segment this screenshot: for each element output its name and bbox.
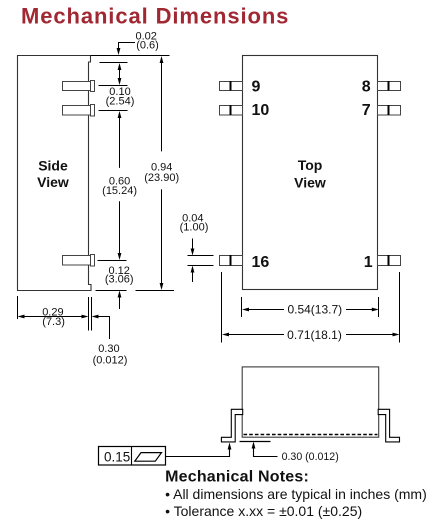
svg-text:0.54(13.7): 0.54(13.7) xyxy=(287,303,342,317)
pin16 top extension line xyxy=(188,255,214,257)
side view pin 3 xyxy=(63,255,95,267)
dim 0.30 leader with arrow xyxy=(92,315,110,339)
side view body xyxy=(18,56,92,291)
svg-text:0.71(18.1): 0.71(18.1) xyxy=(287,328,342,342)
top view pin 9 xyxy=(220,81,243,91)
dim 0.30 standoff arrow xyxy=(252,442,278,457)
dim 0.04 top arrow xyxy=(191,239,195,256)
top view pin 16 xyxy=(220,255,243,266)
top view body xyxy=(243,56,378,290)
svg-text:10: 10 xyxy=(252,102,270,119)
dim 0.60 arrowed line xyxy=(118,111,122,260)
svg-text:8: 8 xyxy=(362,79,371,96)
dim 0.29 left extension line xyxy=(17,296,19,319)
bottom view left leg xyxy=(221,409,242,442)
bottom extension line short xyxy=(96,290,127,292)
svg-text:(1.00): (1.00) xyxy=(180,222,209,234)
svg-text:0.30 (0.012): 0.30 (0.012) xyxy=(282,451,339,463)
svg-text:(15.24): (15.24) xyxy=(102,185,137,197)
svg-text:• All dimensions are typical i: • All dimensions are typical in inches (… xyxy=(165,486,427,502)
side view pin 1 xyxy=(63,81,95,92)
svg-text:Top: Top xyxy=(298,157,323,173)
dim 0.29 arrowed line xyxy=(18,315,89,319)
svg-text:9: 9 xyxy=(252,79,261,96)
dim 0.71 right extension line xyxy=(399,272,401,343)
dim 0.54 left extension line xyxy=(241,297,243,317)
bottom extension line under 0.94 xyxy=(136,290,175,292)
svg-text:(2.54): (2.54) xyxy=(106,95,135,107)
svg-text:(0.6): (0.6) xyxy=(136,40,159,52)
svg-text:View: View xyxy=(37,174,69,190)
svg-text:1: 1 xyxy=(364,254,373,271)
svg-text:Mechanical Dimensions: Mechanical Dimensions xyxy=(21,3,289,28)
dim 0.54 right extension line xyxy=(378,297,380,317)
svg-text:Mechanical Notes:: Mechanical Notes: xyxy=(165,469,309,486)
svg-text:(23.90): (23.90) xyxy=(144,172,179,184)
svg-text:(0.012): (0.012) xyxy=(93,354,128,366)
pin3 centre extension line xyxy=(98,260,127,262)
side view pin 2 xyxy=(63,105,95,117)
svg-text:(7.3): (7.3) xyxy=(42,316,65,328)
dim 0.12 bottom arrow xyxy=(118,291,122,310)
top view pin 7 xyxy=(378,105,401,115)
svg-text:• Tolerance x.xx = ±0.01 (±0.2: • Tolerance x.xx = ±0.01 (±0.25) xyxy=(165,503,362,519)
top view label xyxy=(294,157,326,191)
pin16 bottom extension line xyxy=(188,265,214,267)
top view pin 8 xyxy=(378,81,401,91)
bottom view right leg xyxy=(378,409,399,442)
dim 0.54 arrowed line xyxy=(242,308,379,312)
flatness feature control frame xyxy=(99,447,166,466)
pin thickness extension lines xyxy=(88,297,90,331)
dim 0.71 left extension line xyxy=(221,272,223,343)
pin1 centre extension line xyxy=(99,85,128,87)
dim 0.02 leader and arrow xyxy=(117,43,135,56)
flatness parallelogram symbol xyxy=(135,453,162,462)
step extension line xyxy=(100,62,128,64)
dim 0.94 arrowed line xyxy=(160,56,164,290)
svg-text:(3.06): (3.06) xyxy=(105,274,134,286)
side view label xyxy=(37,158,69,190)
top view pin 10 xyxy=(220,105,243,115)
flatness leader arrow xyxy=(166,443,231,457)
top edge extension line xyxy=(91,55,170,57)
svg-text:0.30: 0.30 xyxy=(98,343,119,355)
bottom view dashed line xyxy=(244,434,378,436)
seating reference line xyxy=(240,441,271,443)
svg-text:Side: Side xyxy=(38,158,68,174)
pin2 centre extension line xyxy=(99,110,128,112)
top view pin 1 xyxy=(378,255,401,266)
svg-text:0.15: 0.15 xyxy=(104,449,130,464)
svg-text:7: 7 xyxy=(362,102,371,119)
bottom view body xyxy=(242,367,379,437)
dim 0.71 arrowed line xyxy=(222,333,400,337)
svg-text:16: 16 xyxy=(252,254,270,271)
double arrow between step and pin1 centre line xyxy=(118,63,122,85)
dim 0.04 bottom arrow xyxy=(191,266,195,283)
svg-text:View: View xyxy=(294,175,326,191)
